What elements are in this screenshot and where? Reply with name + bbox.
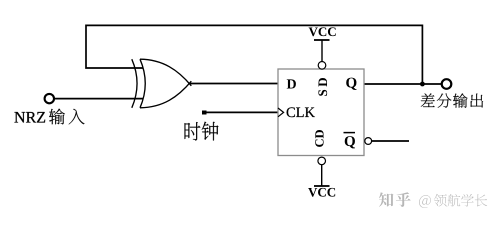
wire: NRZ input to XOR bottom input <box>54 98 145 100</box>
NRZ input terminal <box>45 94 54 103</box>
CLK edge-trigger triangle <box>278 108 284 117</box>
wire: clock source to CLK input <box>204 111 278 113</box>
wire: feedback from Q node up and across to XOR top input <box>86 25 422 84</box>
D flip-flop U2 body <box>278 69 364 156</box>
CD active-low bubble <box>318 157 326 165</box>
VCC rail (top) <box>309 27 336 40</box>
junction dot at Q feedback node <box>420 82 425 87</box>
pin label CLK <box>287 107 315 117</box>
wire: Q output to differential output terminal <box>364 83 442 85</box>
clock source terminal <box>202 111 207 115</box>
pin label D <box>287 79 296 88</box>
node label: NRZ input <box>14 109 84 125</box>
wire: Qbar output stub <box>372 140 410 142</box>
watermark <box>379 192 487 208</box>
pin label Q <box>346 78 356 90</box>
Qbar active-low bubble <box>365 138 372 145</box>
wire: CD pin to VCC <box>321 165 323 186</box>
pin label Qbar <box>344 133 356 149</box>
wire: XOR output to D input <box>189 83 278 85</box>
pin label CD (rotated) <box>315 130 323 147</box>
XOR gate U1 <box>132 59 192 108</box>
differential output terminal <box>442 79 452 89</box>
SD active-low bubble <box>318 62 326 70</box>
node label: differential output <box>421 93 483 107</box>
node label: clock <box>185 122 219 141</box>
pin label SD (rotated) <box>318 78 327 96</box>
VCC rail (bottom) <box>308 186 335 197</box>
wire: VCC to SD pin <box>321 40 323 62</box>
